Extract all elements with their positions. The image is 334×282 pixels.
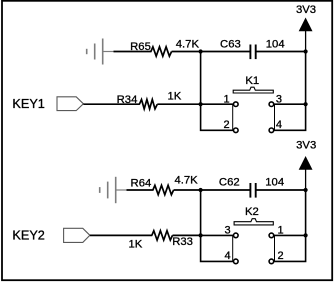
wire: node A down to KEY1 net [200, 52, 202, 105]
svg-text:R64: R64 [131, 177, 152, 189]
svg-text:R65: R65 [130, 41, 151, 53]
wire: KEY1 port to R34 [83, 103, 139, 105]
svg-text:3V3: 3V3 [296, 4, 316, 16]
junction: KEY1 net node [199, 102, 203, 106]
K2 pin 1 [269, 233, 274, 238]
svg-text:4: 4 [276, 119, 282, 131]
svg-text:1: 1 [223, 93, 229, 105]
resistor R33 [152, 231, 173, 240]
wire: K1 pin1-pin2 connector [232, 104, 234, 130]
svg-text:KEY1: KEY1 [12, 97, 44, 111]
wire: KEY1 node down and right to K1 pin 2 [201, 104, 234, 130]
K2 pin 2 [269, 259, 274, 264]
svg-text:C63: C63 [220, 39, 241, 51]
switch K2 actuator bar [234, 219, 273, 225]
wire: ground to R64 [127, 189, 154, 191]
ground (top, input of R65) [87, 39, 115, 65]
port KEY1 [57, 97, 83, 111]
wire: 3V3 node down to K2 pin 1 wire [305, 190, 307, 235]
capacitor C63 [250, 45, 255, 60]
svg-text:R33: R33 [172, 236, 193, 248]
svg-text:K2: K2 [245, 206, 259, 218]
power 3V3 (top) [299, 18, 313, 52]
K1 pin 1 [234, 102, 239, 107]
wire: KEY2 port to R33 [90, 234, 152, 236]
svg-text:2: 2 [278, 250, 284, 262]
junction: 3V3 net at K2 [304, 233, 308, 237]
svg-text:K1: K1 [245, 75, 259, 87]
wire: C63 to 3V3 node [256, 51, 305, 53]
wire: R65 to node A [172, 51, 201, 53]
wire: ground to R65 [114, 51, 152, 53]
wire: KEY2 node down and right to K2 pin 4 [201, 235, 234, 261]
power 3V3 (bottom) [299, 156, 313, 190]
wire: K1 pin3-pin4 connector [274, 104, 276, 130]
wire: K2 pin 1 to 3V3 net [274, 234, 306, 236]
wire: C62 to 3V3 node [256, 189, 305, 191]
K1 pin 4 [269, 128, 274, 133]
resistor R34 [139, 100, 157, 109]
port KEY2 [64, 228, 90, 242]
svg-text:104: 104 [266, 39, 285, 51]
K2 pin 4 [234, 259, 239, 264]
junction: C62/3V3 node [304, 188, 308, 192]
junction: 3V3 net at K1 [304, 102, 308, 106]
svg-text:4.7K: 4.7K [174, 175, 198, 187]
wire: 3V3 net down and left to K2 pin 2 [274, 235, 306, 261]
resistor R64 [153, 185, 174, 194]
svg-text:R34: R34 [117, 94, 138, 106]
switch K1 actuator bar [233, 87, 273, 93]
svg-text:4.7K: 4.7K [176, 39, 200, 51]
svg-text:1: 1 [278, 224, 284, 236]
wire: 3V3 node down to K1 pin 3 wire [305, 52, 307, 105]
svg-text:3: 3 [276, 93, 282, 105]
wire: node B to C62 [201, 189, 250, 191]
resistor R65 [151, 47, 172, 56]
ground (bottom, input of R64) [100, 177, 128, 203]
wire: R33 to KEY2 node [173, 234, 201, 236]
wire: node A to C63 [201, 51, 250, 53]
wire: K2 pin3-pin4 connector [232, 235, 234, 261]
junction: node A (R65/C63/K1) [199, 49, 203, 53]
capacitor C62 [250, 183, 255, 198]
svg-text:3: 3 [224, 224, 230, 236]
svg-text:3V3: 3V3 [296, 140, 316, 152]
wire: K2 pin1-pin2 connector [274, 235, 276, 261]
svg-text:1K: 1K [167, 90, 181, 102]
svg-text:1K: 1K [128, 239, 142, 251]
junction: KEY2 net node [199, 233, 203, 237]
K1 pin 2 [234, 128, 239, 133]
svg-text:KEY2: KEY2 [12, 228, 44, 242]
K1 pin 3 [269, 102, 274, 107]
wire: 3V3 net down and left to K1 pin 4 [274, 104, 306, 130]
junction: C63/3V3 node [304, 49, 308, 53]
wire: KEY2 node to K2 pin 3 [201, 234, 234, 236]
svg-text:2: 2 [223, 119, 229, 131]
junction: node B (R64/C62/K2) [199, 188, 203, 192]
wire: K1 pin 3 to 3V3 net [274, 103, 306, 105]
svg-text:4: 4 [224, 250, 230, 262]
wire: node B down to KEY2 net [200, 190, 202, 235]
svg-text:C62: C62 [219, 177, 240, 189]
svg-text:104: 104 [265, 177, 284, 189]
wire: KEY1 node to K1 pin 1 [201, 103, 234, 105]
K2 pin 3 [234, 233, 239, 238]
wire: R64 to node B [174, 189, 201, 191]
wire: R34 to KEY1 node [157, 103, 200, 105]
